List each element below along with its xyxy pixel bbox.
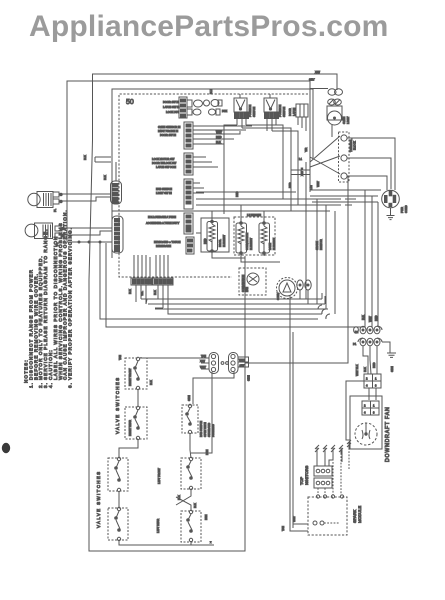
stubs rail to strip [95,157,116,181]
svg-text:BLK: BLK [128,289,132,294]
svg-text:BAKE: BAKE [268,243,272,250]
svg-text:HOLLOWRATE A TURN: HOLLOWRATE A TURN [148,215,176,219]
connector strip column P4 seg3 [184,153,193,175]
position switch SW2 box [264,98,277,112]
svg-text:50: 50 [126,99,134,106]
relay row2 rect [187,109,192,115]
downdraft fan motor [355,423,377,445]
svg-text:DOOR SW IN: DOOR SW IN [163,100,179,104]
wire left rail outer L1 top loop [89,74,337,551]
svg-text:GRY: GRY [309,78,315,82]
svg-text:BLK: BLK [83,155,87,160]
keyboard bundle 2 wires [156,255,168,278]
svg-text:OVEN SENSOR IN: OVEN SENSOR IN [158,125,180,129]
connector strip left column seg1 [111,181,122,204]
wires from position switches down [237,118,276,131]
svg-text:WHT: WHT [239,358,245,362]
junction x245 from bake area [244,256,246,551]
switch S1 RIGHT FRONT [125,357,147,389]
connector strip column P4 seg1 [179,97,187,118]
bend-ups to ignitor ovals [300,290,325,304]
svg-text:WHT: WHT [292,516,296,522]
spark module circles [313,521,317,525]
terminal block dashed spine [339,132,350,182]
svg-text:BLK: BLK [153,290,157,295]
svg-text:PWR: PWR [400,207,404,213]
switch S2 RIGHT REAR [125,406,147,439]
wire P3 to right rail [249,362,349,364]
wire hbus y134 [193,131,240,144]
svg-text:TAN: TAN [118,355,122,360]
position switch top ticks [240,94,270,98]
convection fan dashed box [239,268,266,295]
ground below plug [387,208,395,220]
svg-text:4.: 4. [48,382,53,388]
downdraft fan connector [362,401,379,415]
relay K2 circle row1 [204,100,210,106]
wire TB2 to plug [347,158,391,189]
svg-text:WHT: WHT [316,181,320,187]
spark wire from fan area [341,449,343,462]
svg-text:GRN: GRN [247,375,251,381]
wires glyphs to blocks [317,453,333,466]
connector strip left column seg2 [112,216,123,253]
downdraft fan box [350,396,382,449]
convection motor dashed ring [277,278,298,299]
svg-text:LEFT REAR: LEFT REAR [156,519,160,533]
connector strip column P4 seg4 [184,179,193,209]
svg-text:MODULE: MODULE [357,506,362,523]
vertical x224 [223,144,225,214]
svg-text:KEYBOARD + TOUCH: KEYBOARD + TOUCH [154,240,181,244]
dashed vert right glyphs [333,448,349,495]
svg-text:LH HIDDEN: LH HIDDEN [247,213,261,217]
wire junction y242 [67,241,112,243]
wire harness to fan [346,381,376,440]
svg-text:P2: P2 [355,330,359,334]
notes text block [24,209,73,388]
svg-text:ACCENDING A TURN DUTY: ACCENDING A TURN DUTY [146,221,180,225]
svg-text:MEMBRANE: MEMBRANE [156,244,171,248]
oven lamp PL2 terminals [55,226,61,231]
svg-text:3/W: 3/W [240,364,245,368]
svg-text:LOCK MOTOR SW: LOCK MOTOR SW [152,157,175,161]
svg-text:BLOCK: BLOCK [353,141,357,150]
wires seg4 right short [193,183,204,193]
svg-text:L1N: L1N [309,185,313,190]
svg-text:LOCK OUT: LOCK OUT [166,110,180,114]
wire lamp PL2 to strip [64,228,112,235]
connector strip column P4 seg5 [184,213,193,234]
connector strip column P4 seg6 bottom [186,237,194,254]
wire S3 to S4 [118,492,120,508]
convection fan motor circle [247,273,259,285]
svg-text:BLK: BLK [149,380,153,385]
P3 connector B body [229,353,249,374]
svg-text:BROIL: BROIL [218,239,222,247]
oven lamp PL2 body [25,223,52,239]
svg-text:SPARK: SPARK [315,241,319,250]
ignitor oval pair 1 [297,280,303,290]
coil top stubs [212,205,264,220]
power cord plug face [382,190,400,208]
svg-text:WHT: WHT [216,130,222,134]
terminal block circle 2 [341,155,347,161]
scan blob artifact [2,443,10,453]
broil element coil [209,220,215,250]
svg-text:6.: 6. [68,382,73,388]
switch S4 [108,507,128,540]
svg-text:IGNITORS: IGNITORS [304,465,309,485]
rail BLK down [310,190,381,327]
svg-text:WHT: WHT [200,365,206,369]
position switch SW2 blade [266,100,275,110]
bus h y205 [196,204,352,206]
keyboard connector 2 [153,278,173,285]
P3 mating dots [221,362,224,365]
position switch SW1 box [234,98,247,112]
svg-text:DOOR UNLOCK SW: DOOR UNLOCK SW [152,161,177,165]
downdraft oval row 1 [360,326,382,334]
control board dashed inner box [119,94,308,253]
position switch SW1 connector [235,112,249,119]
vertical x293 x299 pair [291,138,310,211]
svg-text:DOWNDRAFT FAN: DOWNDRAFT FAN [385,406,391,462]
ignitor glyph 3 [331,445,335,453]
broil element coil box [207,222,218,252]
bus h y192 [196,191,296,193]
svg-text:FAN: FAN [245,287,249,292]
oval row1 extra [354,327,359,333]
svg-text:SWITCH: SWITCH [282,107,286,117]
relay row2 oval2 [209,109,216,115]
control board outer box [112,89,313,258]
oven light OL1 bulb [328,111,342,125]
svg-text:RIGHT FRONT: RIGHT FRONT [128,368,132,386]
keyboard connector 1 [131,278,152,285]
oven light connector oval pair row1 [328,89,336,95]
relay K3 oval row1 [211,100,219,107]
svg-text:TAN: TAN [281,526,285,531]
svg-text:ELEMENT: ELEMENT [249,237,253,250]
svg-text:Y/R: Y/R [304,148,308,152]
position switch SW2 connector [265,112,279,119]
hidden bake dashed box [234,217,275,255]
terminal block circle 3 [341,173,347,179]
relay K1 row1 [187,100,192,107]
svg-text:POSITION: POSITION [248,104,252,117]
svg-text:LATCH SW COM: LATCH SW COM [156,165,176,169]
rail from TB3 down [245,176,348,363]
wire S5 to S6 [190,434,191,458]
terminal block circle 1 [341,135,347,141]
bus2 y299 [141,298,322,300]
svg-text:LATCH: LATCH [292,108,296,116]
wire bottom bus [119,541,214,545]
vertical bus drops x317 x326 x335 [317,199,335,314]
svg-text:X/W: X/W [200,359,205,363]
svg-text:VERIFY PROPER OPERATION AFTER: VERIFY PROPER OPERATION AFTER SERVICING. [68,227,73,380]
svg-text:ELEMENT: ELEMENT [272,237,276,250]
bus h y199 [196,198,356,200]
pan switch S5 [182,404,198,433]
P3 connector A body [201,353,219,374]
ignitor glyph 1 [315,445,319,453]
svg-text:1.: 1. [28,382,33,388]
svg-text:VALVE SWITCHES: VALVE SWITCHES [96,471,101,529]
oven light OL1 box [327,106,342,120]
svg-text:RIGHT REAR: RIGHT REAR [128,420,132,436]
keyboard bundle 1 wires [134,255,150,278]
svg-text:RED: RED [374,315,378,321]
connector 2x2 harness [364,374,381,388]
wire P3A left to switch RF [141,357,201,358]
crossing wires BLK [176,490,191,511]
svg-text:BRN: BRN [205,449,209,455]
svg-text:TAN: TAN [201,354,206,358]
wire x283 bus to y194 [282,194,284,199]
bus2 y319 [100,243,318,319]
wire P3A drop BRN [191,372,212,453]
drop circles [316,495,319,498]
convection motor circle [279,280,295,296]
wires strip2 right [193,126,252,130]
svg-text:LEFT FRONT: LEFT FRONT [157,468,161,484]
svg-text:PL: PL [53,208,57,212]
keyboard tails down [136,285,168,308]
svg-text:AppliancePartsPros.com: AppliancePartsPros.com [29,10,389,43]
wires below elements [196,233,280,262]
control board dashed bottom lip [119,253,232,277]
wire TB1 to plug [347,138,395,190]
svg-text:CONVECTION: CONVECTION [245,233,249,250]
svg-text:SWITCH: SWITCH [252,107,256,117]
bus2 sub y314 [168,302,322,314]
switch S6 [181,457,201,489]
downdraft oval row 2 [358,338,382,346]
dashed drops to spark module [318,488,325,495]
svg-text:RED: RED [216,135,222,139]
svg-text:LIGHT SW IN: LIGHT SW IN [156,191,172,195]
svg-text:MEAT PROBE IN: MEAT PROBE IN [158,129,178,133]
svg-text:BLK: BLK [361,315,365,320]
svg-text:WHT: WHT [368,316,372,322]
svg-text:BLK: BLK [216,140,221,144]
switch S3 [108,457,128,491]
oven lamp PL1 body [28,192,53,208]
svg-text:RED: RED [203,238,207,244]
svg-text:BLK: BLK [103,175,107,180]
svg-text:BLK: BLK [193,503,197,508]
ignitor glyph 5 [347,440,351,448]
ground GRN [387,353,396,357]
svg-text:X/W: X/W [315,70,320,74]
svg-text:POSITION: POSITION [278,104,282,117]
twin drop to top ignitors [290,295,293,531]
svg-text:GRN: GRN [390,366,394,372]
ignitor glyph 4 [339,445,343,453]
connector strip column P4 seg2 [184,122,193,149]
wire TB3 to plug [347,176,387,190]
wire WHT into module [290,524,308,531]
bake element coil box [259,223,270,253]
ignitor block 1 [314,466,332,476]
svg-text:X/W: X/W [300,171,304,176]
svg-text:CORD: CORD [404,205,408,213]
ignitor oval pair 2 [305,280,311,290]
bus2 y304 [146,299,325,304]
wire S2 to S3 [119,440,138,458]
svg-text:P1: P1 [353,342,357,346]
svg-text:PAN SWITCH: PAN SWITCH [199,421,203,437]
oven light connector oval pair row2 [328,99,336,105]
svg-text:RED: RED [372,362,376,368]
bake element coil [261,220,267,252]
hop arcs right [318,305,330,319]
ignitor glyph 2 [323,445,327,453]
svg-text:FAN SWITCH: FAN SWITCH [156,187,172,191]
convection element coil box [236,223,247,253]
relay K1 oval row1 [194,100,203,107]
wire P3B to pan switch GRN [193,372,234,404]
wire lamp PL1 to strip [62,194,110,201]
diagonal harness crossing to terminal block [306,136,340,299]
wire left rail inner L2 [67,81,310,242]
wires seg3 right [193,157,218,167]
relay row2 oval [193,109,201,115]
bus2 y327 [106,243,365,327]
oven lamp PL1 terminals [53,192,59,197]
wire S1 to S2 [137,390,139,406]
bus2 y308 [155,308,328,309]
ignitor block 2 [314,478,332,488]
svg-text:OVEN: OVEN [342,117,346,124]
svg-text:CONVECTION: CONVECTION [241,275,245,292]
svg-text:DLB: DLB [209,89,213,94]
svg-text:LATCH SW IN: LATCH SW IN [163,105,180,109]
svg-text:LIGHT: LIGHT [346,116,350,124]
svg-text:RED: RED [235,191,239,197]
convection element coil [238,220,244,252]
svg-text:ELEMENT: ELEMENT [222,234,226,247]
svg-text:IGNITOR: IGNITOR [319,239,323,250]
svg-text:BLK: BLK [363,367,367,372]
svg-text:DOOR SW IN: DOOR SW IN [160,133,176,137]
svg-text:YEL: YEL [140,291,144,296]
switch S7 [181,510,201,542]
wire bus under switches [224,125,298,214]
svg-text:STANDARD: STANDARD [207,423,211,437]
wire branch to oven light ovals [310,88,328,90]
wires ovals to connector [363,342,390,374]
svg-text:BLK: BLK [177,495,181,500]
broil element box [201,218,229,252]
wire light down [331,125,333,137]
door latch connector box [296,104,308,117]
svg-text:BUZ: BUZ [222,109,228,113]
svg-text:OPEN WITH: OPEN WITH [203,422,207,437]
bus h y211 [112,210,330,212]
svg-text:BRN: BRN [204,514,208,520]
svg-text:DOOR: DOOR [288,108,292,116]
svg-text:GRN: GRN [187,395,191,401]
svg-text:WHT BLK: WHT BLK [355,364,359,376]
svg-text:TERMINAL: TERMINAL [349,138,353,152]
spark module box [308,497,347,535]
svg-text:VALVE SWITCHES: VALVE SWITCHES [115,377,120,435]
position switch SW1 blade [236,100,245,110]
